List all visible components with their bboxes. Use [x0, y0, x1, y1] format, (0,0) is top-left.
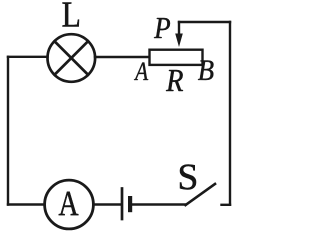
label A (rheostat left terminal) [134, 62, 148, 80]
ammeter A body [45, 180, 94, 229]
label B (rheostat right terminal) [198, 60, 213, 80]
wire: switch fixed contact foot [222, 204, 231, 206]
lamp L [48, 34, 96, 82]
rheostat slider arrow stem P [178, 22, 180, 35]
wire: lamp to rheostat [95, 56, 150, 58]
label S [180, 164, 196, 189]
wire: top-left horizontal from left rail to lamp [8, 56, 48, 58]
wire: battery to switch [133, 203, 186, 205]
label P [154, 18, 170, 38]
wire: slider to top-right corner [179, 21, 230, 23]
battery short thick plate [128, 196, 132, 212]
wire: right vertical rail [229, 22, 231, 205]
wire: bottom-left horizontal to ammeter [8, 203, 45, 205]
battery long plate [121, 189, 124, 220]
switch S blade [186, 184, 216, 205]
rheostat R body [150, 50, 203, 65]
wire: ammeter to battery [94, 203, 121, 205]
label R [166, 70, 183, 91]
ammeter letter A [59, 192, 79, 215]
label L [62, 3, 79, 27]
wire: left vertical rail [7, 57, 9, 205]
rheostat slider arrowhead [175, 34, 183, 48]
